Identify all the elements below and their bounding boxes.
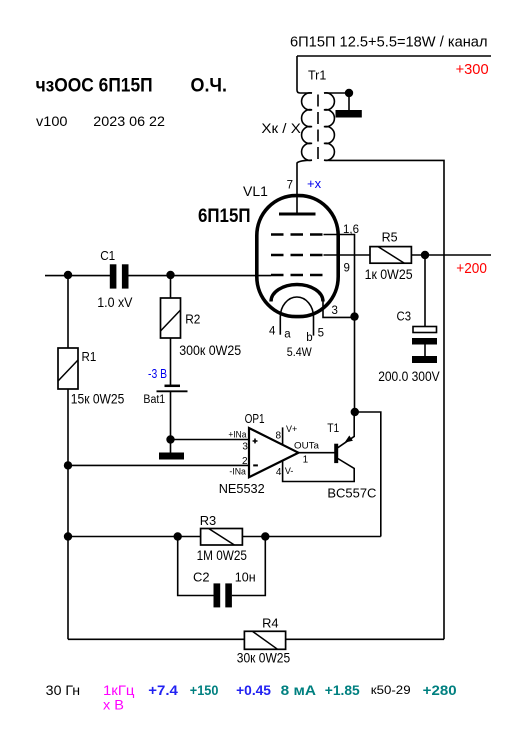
wire to C3 <box>424 255 426 326</box>
svg-text:R4: R4 <box>262 616 279 631</box>
svg-text:2: 2 <box>242 456 248 467</box>
node R3/C2 left <box>174 532 182 540</box>
svg-text:Bat1: Bat1 <box>143 394 165 406</box>
input wire / grid wire <box>45 275 111 277</box>
wire primary bottom to tube anode (pin 7) <box>297 160 312 214</box>
tube heater arc <box>280 297 313 317</box>
tube envelope <box>257 196 338 317</box>
svg-text:х В: х В <box>103 697 124 713</box>
resistor R3 <box>201 529 243 546</box>
wire g3 to cathode bus <box>324 235 355 317</box>
tube anode plate <box>279 213 316 216</box>
ground bar at battery <box>159 453 184 460</box>
tube cathode <box>271 285 323 302</box>
svg-text:9: 9 <box>344 263 350 275</box>
capacitor C2 branch <box>178 537 214 596</box>
svg-text:OUTa: OUTa <box>294 440 319 450</box>
svg-text:О.Ч.: О.Ч. <box>191 75 228 97</box>
wire secondary bottom to right bus <box>324 160 444 639</box>
node R3 left bus <box>64 532 72 540</box>
node secondary-top junction <box>345 89 353 97</box>
svg-text:NE5532: NE5532 <box>219 481 265 496</box>
svg-text:v100: v100 <box>36 113 68 129</box>
wire battery to junction <box>170 391 172 439</box>
T1 base bar <box>334 444 338 463</box>
wire g2 to R5 <box>324 254 371 256</box>
pin 8 stub V+ <box>282 427 284 445</box>
svg-text:8 мА: 8 мА <box>281 682 316 698</box>
node battery junction <box>166 435 174 443</box>
svg-text:R5: R5 <box>382 230 398 245</box>
svg-text:V-: V- <box>285 466 294 476</box>
svg-text:3: 3 <box>242 442 248 453</box>
tube grid g1 (dashes) <box>271 274 324 277</box>
svg-text:-INa: -INa <box>229 467 246 477</box>
svg-text:Xк / X: Xк / X <box>261 121 300 136</box>
node R5/C3 junction <box>421 251 429 259</box>
svg-text:4: 4 <box>276 467 282 478</box>
svg-text:1M 0W25: 1M 0W25 <box>197 548 247 563</box>
svg-text:R1: R1 <box>82 349 97 364</box>
svg-text:V+: V+ <box>286 424 297 434</box>
op-amp output wire <box>298 452 334 454</box>
wire rail to transformer <box>297 56 312 93</box>
svg-text:1: 1 <box>303 454 309 465</box>
svg-text:a: a <box>284 328 291 340</box>
wire cathode to pin3 <box>323 302 355 318</box>
op-amp plus sign <box>253 439 258 444</box>
svg-text:300к 0W25: 300к 0W25 <box>179 343 241 358</box>
wire R2 to battery <box>170 338 172 385</box>
svg-text:R3: R3 <box>200 513 217 528</box>
wire R5 to +200 <box>411 254 491 256</box>
op-amp minus sign <box>253 464 258 466</box>
heater leg b <box>313 317 315 336</box>
svg-text:+INa: +INa <box>228 429 246 439</box>
resistor R5 <box>370 247 411 264</box>
svg-text:3: 3 <box>332 305 338 317</box>
svg-text:6П15П 12.5+5.5=18W / канал: 6П15П 12.5+5.5=18W / канал <box>290 35 488 51</box>
svg-text:C2: C2 <box>193 569 210 584</box>
node C1/R2 junction <box>166 271 174 279</box>
wire R4 row <box>68 638 244 640</box>
svg-text:+0.45: +0.45 <box>236 682 271 698</box>
svg-text:+280: +280 <box>423 682 457 698</box>
svg-text:7: 7 <box>287 180 293 192</box>
svg-text:чзООС 6П15П: чзООС 6П15П <box>36 75 153 97</box>
resistor R1 <box>58 348 78 389</box>
svg-text:200.0 300V: 200.0 300V <box>378 369 440 384</box>
wire secondary top to ground <box>324 92 349 94</box>
ground bar below C3 <box>412 356 437 363</box>
node input junction <box>64 271 72 279</box>
svg-text:+1.85: +1.85 <box>325 682 360 698</box>
node R3/C2 right <box>261 532 269 540</box>
svg-text:2023 06 22: 2023 06 22 <box>93 113 165 129</box>
heater leg a <box>279 317 281 335</box>
svg-text:4: 4 <box>269 326 276 338</box>
svg-text:+200: +200 <box>456 260 487 277</box>
wire left bus lower <box>67 389 69 639</box>
svg-text:+7.4: +7.4 <box>148 682 178 698</box>
battery Bat1 <box>165 385 181 388</box>
ground stub <box>170 440 172 453</box>
svg-text:30 Гн: 30 Гн <box>46 682 80 698</box>
svg-text:8: 8 <box>275 430 281 441</box>
wire emitter node to feedback bus <box>355 412 381 537</box>
ground (chassis bar) at transformer <box>336 110 362 118</box>
svg-text:R2: R2 <box>185 311 200 326</box>
svg-text:15к 0W25: 15к 0W25 <box>71 391 125 406</box>
svg-text:+x: +x <box>307 176 322 191</box>
wire to op-amp +in <box>171 439 250 441</box>
node -in junction <box>64 461 72 469</box>
svg-text:1к 0W25: 1к 0W25 <box>365 267 413 282</box>
transformer core <box>317 95 319 160</box>
svg-text:+150: +150 <box>190 682 219 698</box>
svg-text:-3 В: -3 В <box>148 366 167 381</box>
T1 emitter arrow <box>345 436 353 443</box>
node pin3 junction <box>350 312 358 320</box>
T1 emitter <box>338 412 354 448</box>
wire cathode bus to emitter node <box>354 317 356 412</box>
svg-text:+300: +300 <box>456 61 489 78</box>
wire ground stub <box>348 93 350 110</box>
svg-text:к50-29: к50-29 <box>371 683 411 697</box>
svg-text:C3: C3 <box>397 308 412 323</box>
wire R2 top <box>170 275 172 298</box>
svg-text:BC557C: BC557C <box>327 486 376 501</box>
svg-text:10н: 10н <box>235 570 256 584</box>
tube grid g3 (dashes) <box>271 233 324 236</box>
pin 4 stub V- to T1 collector <box>283 459 355 482</box>
svg-text:OP1: OP1 <box>245 411 265 426</box>
svg-text:5.4W: 5.4W <box>287 347 312 359</box>
tube grid g2 (dashes) <box>271 254 324 257</box>
svg-text:6П15П: 6П15П <box>198 205 251 227</box>
node emitter junction <box>351 408 359 416</box>
svg-text:5: 5 <box>318 327 324 339</box>
svg-text:T1: T1 <box>327 421 339 435</box>
wire left bus <box>67 275 69 348</box>
transformer Tr1 secondary winding <box>324 93 334 161</box>
svg-text:VL1: VL1 <box>243 183 268 199</box>
svg-text:1.0 xV: 1.0 xV <box>97 295 132 310</box>
transformer Tr1 primary winding <box>302 93 312 161</box>
svg-text:Tr1: Tr1 <box>308 68 326 82</box>
resistor R4 <box>244 631 285 649</box>
wire left bus to op-amp -in <box>68 464 249 466</box>
svg-text:30к 0W25: 30к 0W25 <box>237 651 290 666</box>
wire R3 row <box>68 536 201 538</box>
resistor R2 <box>161 298 181 338</box>
svg-text:b: b <box>306 332 312 344</box>
+300 rail wire <box>297 55 491 57</box>
svg-text:C1: C1 <box>100 248 115 263</box>
